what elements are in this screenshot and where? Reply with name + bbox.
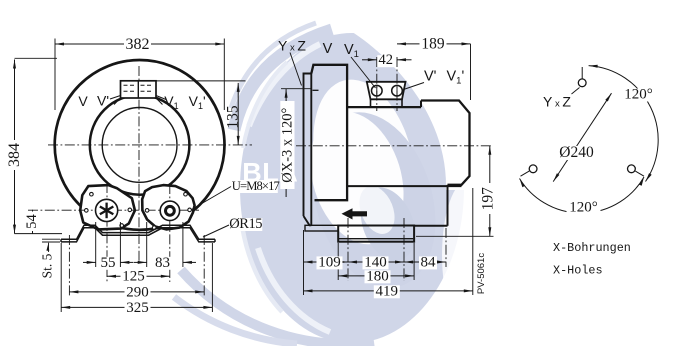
svg-text:325: 325 xyxy=(126,300,149,316)
svg-text:V1': V1' xyxy=(189,93,206,111)
svg-text:X-Holes: X-Holes xyxy=(553,263,603,277)
svg-text:X-Bohrungen: X-Bohrungen xyxy=(553,241,631,255)
svg-text:St. 5: St. 5 xyxy=(40,253,55,278)
svg-text:55: 55 xyxy=(101,255,116,271)
svg-text:V1': V1' xyxy=(447,69,465,87)
svg-text:V': V' xyxy=(97,92,109,108)
svg-text:125: 125 xyxy=(122,269,145,285)
svg-text:V: V xyxy=(323,41,333,57)
svg-text:V: V xyxy=(78,93,88,109)
svg-text:180: 180 xyxy=(366,268,389,284)
svg-text:V': V' xyxy=(424,69,437,85)
svg-text:109: 109 xyxy=(318,254,341,270)
svg-text:U=M8×17: U=M8×17 xyxy=(232,179,280,193)
svg-text:120°: 120° xyxy=(624,87,653,103)
svg-text:54: 54 xyxy=(24,214,40,229)
svg-text:382: 382 xyxy=(126,36,150,53)
svg-text:197: 197 xyxy=(480,187,497,211)
svg-text:84: 84 xyxy=(421,254,437,270)
svg-text:419: 419 xyxy=(376,283,399,299)
svg-text:PV-5061c: PV-5061c xyxy=(476,253,487,294)
svg-text:290: 290 xyxy=(126,284,149,300)
svg-text:120°: 120° xyxy=(569,200,598,216)
svg-text:135: 135 xyxy=(224,105,241,129)
svg-text:ØX-3 x 120°: ØX-3 x 120° xyxy=(279,107,295,182)
svg-text:83: 83 xyxy=(155,255,170,271)
svg-text:ØR15: ØR15 xyxy=(229,216,262,232)
svg-text:42: 42 xyxy=(379,52,394,68)
svg-text:384: 384 xyxy=(6,143,23,167)
svg-text:189: 189 xyxy=(421,35,445,52)
svg-text:Ø240: Ø240 xyxy=(559,144,594,161)
